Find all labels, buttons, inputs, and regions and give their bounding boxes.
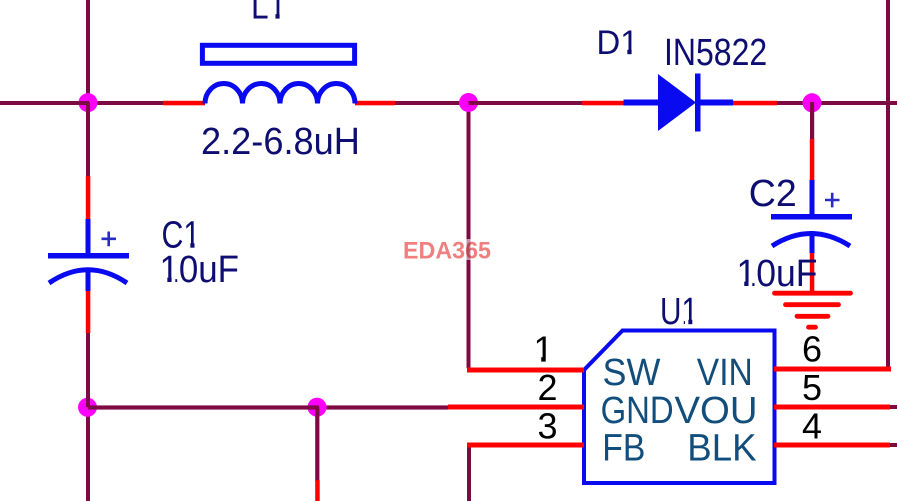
wire [469, 101, 583, 105]
svg-text:2.2-6.8uH: 2.2-6.8uH [201, 121, 360, 163]
svg-text:EDA365: EDA365 [403, 238, 491, 265]
capacitor C1 [48, 219, 129, 291]
svg-text:VOU: VOU [675, 390, 758, 432]
inductor L1 pin 1 lead [163, 101, 205, 106]
wire [88, 405, 319, 409]
svg-text:L1: L1 [251, 0, 286, 27]
svg-text:3: 3 [538, 405, 558, 446]
capacitor C2 negative lead wire [810, 253, 815, 294]
wire [777, 101, 897, 105]
svg-text:2: 2 [538, 367, 558, 408]
wire [467, 102, 471, 368]
wire [890, 443, 897, 447]
wire [467, 447, 471, 501]
IC U1 [584, 331, 775, 484]
junction [803, 93, 822, 112]
svg-text:U1: U1 [660, 291, 698, 333]
pin 4 wire [774, 443, 890, 448]
junction [459, 93, 478, 112]
pin 5 wire [774, 405, 890, 410]
svg-text:SW: SW [603, 352, 661, 394]
wire [886, 0, 890, 371]
ground [775, 293, 851, 327]
pin 6 wire [774, 367, 891, 372]
diode D1 [624, 74, 734, 132]
svg-text:1: 1 [534, 328, 554, 369]
wire [86, 0, 90, 102]
wire [810, 102, 814, 140]
wire [317, 405, 448, 409]
svg-text:VIN: VIN [697, 352, 753, 394]
wire [890, 405, 897, 409]
capacitor C1 positive lead wire [86, 176, 91, 219]
svg-text:6: 6 [802, 328, 822, 369]
junction [78, 398, 97, 417]
inductor L1 [202, 45, 355, 103]
glyph foot masks [161, 14, 752, 363]
wire [86, 333, 90, 407]
wire [315, 407, 319, 481]
junction [308, 398, 327, 417]
wire [315, 480, 320, 501]
pin 1 wire [467, 368, 584, 373]
wire [86, 407, 90, 501]
junction [79, 93, 98, 112]
wire [86, 102, 90, 176]
svg-text:D1: D1 [597, 24, 639, 62]
wire [0, 101, 89, 105]
capacitor C2 [771, 180, 852, 253]
capacitor C2 positive lead wire [810, 139, 815, 180]
svg-text:GND: GND [601, 390, 674, 432]
pin 2 wire [448, 405, 584, 410]
diode D1 cathode lead [733, 101, 777, 106]
svg-text:IN5822: IN5822 [664, 32, 767, 74]
watermark EDA365 [403, 238, 492, 265]
svg-text:5: 5 [802, 367, 822, 408]
pin 3 wire [467, 443, 584, 448]
wire [395, 101, 470, 105]
svg-text:BLK: BLK [687, 428, 756, 470]
inductor L1 pin 2 lead [355, 101, 395, 106]
svg-text:4: 4 [802, 405, 822, 446]
capacitor C1 negative lead wire [86, 291, 91, 333]
svg-text:FB: FB [602, 428, 645, 470]
svg-text:10uF: 10uF [160, 249, 240, 291]
wire [88, 101, 163, 105]
svg-text:C2: C2 [749, 173, 797, 215]
svg-text:10uF: 10uF [737, 253, 818, 295]
diode D1 anode lead [582, 101, 624, 106]
